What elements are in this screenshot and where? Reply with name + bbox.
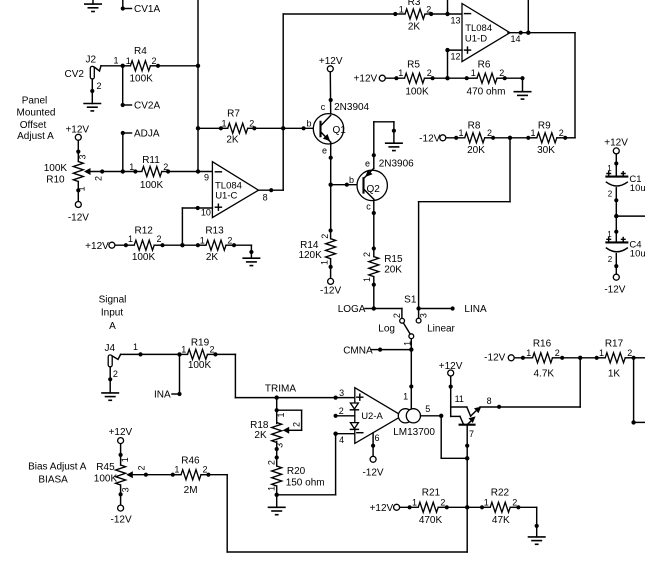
svg-text:U1-D: U1-D [465, 33, 487, 44]
svg-text:e: e [365, 159, 370, 169]
wire vertical bus [197, 0, 199, 172]
svg-text:2: 2 [362, 252, 372, 257]
svg-text:A: A [109, 321, 116, 332]
wire R22 to ground [518, 507, 538, 537]
wire feedback top to R3 [283, 13, 395, 15]
svg-text:2K: 2K [408, 22, 421, 33]
svg-text:R15: R15 [384, 254, 403, 265]
wire R12 to R13 [163, 244, 198, 246]
svg-text:1: 1 [398, 68, 403, 78]
wire TRIMA to U2-A pin 3 [277, 396, 355, 400]
wire S1 pole to U2-A pin 1 [403, 350, 413, 409]
svg-text:J4: J4 [105, 343, 116, 354]
svg-text:-12V: -12V [111, 515, 132, 526]
svg-text:1: 1 [276, 412, 286, 417]
svg-text:8: 8 [263, 193, 268, 203]
connector J2 [65, 55, 119, 92]
svg-text:Q1: Q1 [333, 125, 347, 136]
wire op-amp pin 10 [182, 206, 212, 245]
wire R3 to U1-D pin 13 [431, 13, 462, 15]
svg-text:BIASA: BIASA [38, 475, 68, 486]
resistor R8 20K [446, 120, 495, 156]
node INA [154, 352, 182, 400]
svg-text:-12V: -12V [362, 467, 383, 478]
power -12V (R8) [419, 134, 446, 145]
node pin13 junction [445, 12, 449, 16]
potentiometer R18 2K [250, 398, 302, 452]
svg-text:ADJA: ADJA [134, 129, 160, 140]
svg-text:2: 2 [292, 422, 302, 427]
svg-text:CV2A: CV2A [134, 101, 160, 112]
svg-text:-12V: -12V [604, 285, 625, 296]
wire feedback vertical to R7 and R3 [282, 14, 284, 190]
ground (top-left, CV1 input section) [84, 0, 102, 12]
svg-text:2: 2 [392, 313, 402, 318]
OTA output symbol (current source circles) [398, 409, 420, 423]
svg-text:2: 2 [137, 465, 147, 470]
diode (U2-A upper linearizing diode) [350, 403, 358, 410]
svg-text:LM13700: LM13700 [393, 427, 435, 438]
svg-text:+12V: +12V [65, 124, 89, 135]
svg-text:R21: R21 [422, 488, 441, 499]
switch S1 Log/Linear [378, 294, 455, 349]
potentiometer R45 100K [94, 444, 147, 505]
svg-text:R3: R3 [408, 0, 421, 8]
svg-text:2N3906: 2N3906 [379, 159, 414, 170]
svg-text:CV2: CV2 [65, 69, 85, 80]
svg-text:1: 1 [403, 392, 408, 402]
svg-text:2: 2 [203, 465, 208, 475]
power +12V (R21) [370, 503, 400, 514]
svg-text:+12V: +12V [604, 138, 628, 149]
node pin12/R5/R6 junction [445, 76, 449, 80]
wire R15 to LOGA node [373, 285, 375, 309]
svg-text:2N3904: 2N3904 [334, 102, 369, 113]
svg-text:R20: R20 [287, 466, 306, 477]
svg-text:R7: R7 [227, 109, 240, 120]
svg-text:10u: 10u [630, 183, 645, 194]
power +12V (R10 top) [65, 124, 89, 140]
svg-text:100K: 100K [130, 73, 154, 84]
svg-text:b: b [306, 118, 311, 128]
svg-text:100K: 100K [405, 86, 429, 97]
svg-text:2: 2 [427, 68, 432, 78]
svg-text:R46: R46 [181, 456, 200, 467]
svg-text:INA: INA [154, 390, 171, 401]
svg-text:2: 2 [320, 234, 330, 239]
transistor Q2 2N3906 [349, 159, 414, 212]
svg-text:5: 5 [425, 404, 430, 414]
capacitor C4 10u with -12V [604, 216, 645, 295]
svg-text:2: 2 [113, 369, 118, 379]
node Q1e/Q2b junction [329, 183, 333, 187]
svg-text:U1-C: U1-C [215, 191, 237, 202]
wire U2-A pin 5 output [421, 404, 444, 418]
svg-text:2: 2 [487, 128, 492, 138]
svg-text:100K: 100K [132, 252, 156, 263]
wire R11 to op-amp pin 9 [168, 171, 212, 173]
svg-text:3: 3 [274, 443, 284, 448]
svg-text:20K: 20K [467, 145, 485, 156]
svg-text:R19: R19 [191, 337, 210, 348]
svg-text:R22: R22 [491, 488, 510, 499]
ground (Q2 emitter) [385, 143, 403, 150]
svg-text:2: 2 [97, 81, 102, 91]
svg-text:1: 1 [133, 342, 138, 352]
wire R20 junction to U2-A pin 4 [277, 432, 355, 495]
label Panel Mounted Offset Adjust A [17, 95, 56, 142]
svg-text:9: 9 [204, 173, 209, 183]
node LOGA [338, 304, 376, 315]
resistor R17 1K [595, 339, 636, 380]
wire J2 pin2 to ground [90, 79, 94, 104]
svg-text:120K: 120K [298, 250, 322, 261]
svg-text:U2-A: U2-A [361, 411, 383, 422]
svg-text:R9: R9 [538, 120, 551, 131]
svg-text:20K: 20K [384, 265, 402, 276]
wire R7 to Q1 base [254, 126, 320, 130]
svg-text:+12V: +12V [370, 503, 394, 514]
wire J4 pin1 to R19 [121, 352, 180, 356]
wire R19 to TRIMA row [215, 354, 276, 397]
svg-text:R12: R12 [135, 226, 154, 237]
svg-text:47K: 47K [492, 515, 510, 526]
wire U2-A pin 6 to -12V [371, 433, 375, 456]
power +12V (R45 top) [109, 427, 133, 444]
wire R16 to R17 [562, 357, 597, 359]
svg-text:14: 14 [511, 34, 521, 44]
wire op-amp U1-C output pin 8 [259, 188, 284, 192]
resistor R11 100K [129, 155, 170, 191]
svg-text:6: 6 [374, 433, 379, 443]
power +12V (R12) [85, 241, 115, 252]
svg-text:3: 3 [121, 487, 131, 492]
node bus/R7 junction [196, 126, 200, 130]
node CV1A [121, 0, 161, 15]
svg-text:J2: J2 [86, 55, 97, 66]
svg-text:2: 2 [627, 348, 632, 358]
node pin7/R21/R22 junction [465, 505, 469, 509]
wire R17 node down to edge [631, 358, 645, 425]
label Signal Input A [99, 294, 127, 332]
svg-text:c: c [366, 202, 371, 212]
wire Q1 collector [329, 72, 333, 115]
svg-text:Bias Adjust A: Bias Adjust A [28, 461, 87, 472]
svg-text:b: b [349, 175, 354, 185]
diode (U2-A lower linearizing diode) [350, 423, 358, 430]
power +12V (Q1 collector) [319, 56, 343, 72]
svg-text:2: 2 [266, 460, 276, 465]
svg-text:R10: R10 [46, 174, 65, 185]
svg-text:1: 1 [458, 128, 463, 138]
svg-text:Adjust A: Adjust A [17, 131, 54, 142]
wire J2 pin1 to node [101, 65, 123, 67]
svg-text:1: 1 [114, 56, 119, 66]
svg-text:Mounted: Mounted [17, 108, 56, 119]
power -12V (R16) [484, 353, 514, 364]
svg-text:R45: R45 [96, 462, 115, 473]
node R16/R17/pin8 junction [578, 356, 582, 360]
wire R17 output to edge [634, 357, 645, 359]
svg-text:-12V: -12V [68, 213, 89, 224]
svg-text:1: 1 [399, 4, 404, 14]
wire pin 5 to buffer pin 7 [441, 416, 467, 459]
node LINA [416, 304, 487, 315]
wire U1-D output pin 14 [508, 0, 575, 138]
svg-text:100K: 100K [44, 163, 68, 174]
svg-text:S1: S1 [404, 294, 417, 305]
svg-text:4: 4 [339, 435, 344, 445]
svg-text:1: 1 [484, 497, 489, 507]
node R8/R9/S1-feed junction [508, 136, 512, 140]
wire J4 pin2 to ground [108, 367, 112, 393]
svg-text:470 ohm: 470 ohm [467, 86, 506, 97]
ground (J4) [101, 393, 119, 400]
svg-text:2K: 2K [254, 430, 267, 441]
power -12V (R14) [320, 267, 341, 297]
svg-text:1: 1 [174, 465, 179, 475]
node bus end junction pin 9 [196, 169, 200, 173]
resistor R20 150 ohm [266, 449, 324, 495]
wire vertical from top edge to pin 13 [447, 0, 449, 14]
svg-text:1: 1 [181, 344, 186, 354]
svg-text:CMNA: CMNA [343, 346, 373, 357]
svg-text:1: 1 [471, 68, 476, 78]
svg-text:1: 1 [530, 128, 535, 138]
svg-text:+12V: +12V [354, 73, 378, 84]
svg-text:2K: 2K [206, 252, 219, 263]
svg-text:3: 3 [419, 313, 429, 318]
svg-text:2: 2 [339, 406, 344, 416]
ground (R6) [514, 92, 532, 99]
wire buffer pin 7 down [465, 425, 469, 552]
svg-text:1: 1 [412, 497, 417, 507]
power -12V (U2-A pin 6) [362, 456, 383, 478]
node R20/pin4 junction [275, 493, 279, 497]
op-amp (OTA) U2-A LM13700 [339, 388, 436, 445]
resistor R3 2K [393, 0, 433, 33]
svg-text:R8: R8 [468, 120, 481, 131]
resistor R5 100K [386, 60, 435, 98]
svg-text:TRIMA: TRIMA [265, 383, 296, 394]
wire R5 to R6 [433, 77, 467, 79]
svg-text:1: 1 [362, 277, 372, 282]
svg-text:2: 2 [512, 497, 517, 507]
svg-text:470K: 470K [419, 515, 443, 526]
svg-text:R13: R13 [205, 226, 224, 237]
power +12V (R5) [354, 73, 386, 84]
svg-text:1: 1 [77, 186, 87, 191]
op-amp U1-D TL084 [451, 4, 521, 62]
svg-text:2K: 2K [226, 135, 239, 146]
wire R9 to U1-D output [565, 137, 575, 139]
svg-text:1: 1 [526, 348, 531, 358]
svg-text:150 ohm: 150 ohm [286, 478, 325, 489]
svg-text:1: 1 [120, 457, 130, 462]
svg-text:4.7K: 4.7K [534, 368, 555, 379]
svg-text:2: 2 [559, 128, 564, 138]
svg-text:1: 1 [221, 118, 226, 128]
wire U2-A pin 2 stub [334, 414, 355, 418]
svg-text:100K: 100K [188, 360, 212, 371]
transistor (LM13700 output buffer Darlington) [449, 376, 492, 439]
svg-text:2: 2 [555, 348, 560, 358]
wire R45 wiper to R46 [133, 473, 173, 477]
power +12V (buffer pin 11) [439, 361, 463, 376]
wire R13 to ground [234, 245, 253, 258]
ground (R22) [528, 537, 546, 544]
node ADJA/R11 junction [121, 169, 125, 173]
ground (J2 pin 2) [83, 104, 101, 111]
svg-text:R11: R11 [142, 155, 160, 166]
wire R20 to ground [276, 495, 278, 508]
svg-text:1: 1 [599, 348, 604, 358]
wire Q2 emitter to ground [372, 122, 396, 169]
svg-text:1: 1 [129, 162, 134, 172]
svg-text:Offset: Offset [20, 120, 47, 131]
node CMNA [343, 346, 413, 357]
wire R8 to R9 [493, 137, 528, 139]
svg-text:CV1A: CV1A [134, 4, 160, 15]
node C1/C4 midpoint wire [614, 214, 645, 218]
svg-text:12: 12 [451, 52, 461, 62]
resistor R14 120K [298, 228, 335, 269]
node feedback/R7 junction [281, 126, 285, 130]
connector J4 [105, 342, 139, 379]
capacitor C1 10u with +12V [604, 138, 645, 217]
op-amp U1-C TL084 [201, 162, 268, 218]
svg-text:Panel: Panel [22, 95, 48, 106]
svg-text:-12V: -12V [320, 286, 341, 297]
svg-text:1K: 1K [608, 368, 621, 379]
svg-text:2: 2 [93, 176, 103, 181]
svg-text:2: 2 [440, 497, 445, 507]
svg-text:3: 3 [339, 388, 344, 398]
node pin10/R12/R13 junction [180, 243, 184, 247]
wire R21 to R22 [447, 506, 482, 508]
svg-text:-12V: -12V [484, 353, 505, 364]
wire U1-D pin 12 [445, 48, 462, 78]
node junction J2/R4/CV2A [121, 64, 125, 68]
resistor R16 4.7K [514, 339, 564, 380]
wire R4 to bus [158, 65, 198, 67]
svg-text:R6: R6 [478, 60, 491, 71]
ground (R13) [242, 258, 260, 265]
resistor R12 100K [115, 226, 164, 264]
resistor R21 470K [400, 488, 449, 526]
svg-text:2: 2 [227, 236, 232, 246]
resistor R4 100K [123, 46, 160, 84]
power -12V (R45 bottom) [111, 505, 132, 525]
resistor R46 2M [171, 456, 211, 496]
node ADJA [121, 129, 160, 172]
svg-text:2: 2 [608, 255, 613, 264]
resistor R13 2K [196, 226, 236, 264]
svg-text:Linear: Linear [427, 324, 455, 335]
resistor R6 470 ohm [465, 60, 507, 98]
svg-text:1: 1 [128, 234, 133, 244]
svg-text:10u: 10u [630, 249, 645, 260]
svg-text:Q2: Q2 [367, 184, 381, 195]
svg-text:11: 11 [455, 394, 464, 404]
wire Q2 collector to R15 [372, 199, 376, 248]
svg-text:e: e [322, 145, 327, 155]
svg-text:8: 8 [487, 396, 492, 406]
wire R46 to bottom rail [208, 475, 227, 552]
svg-text:R16: R16 [533, 339, 552, 350]
wire R6 to ground [505, 76, 525, 92]
resistor R9 30K [526, 120, 567, 156]
svg-text:100K: 100K [94, 473, 118, 484]
wire R8/R9 junction down to S1 Linear throw [419, 138, 510, 318]
node bus/R4 junction [196, 64, 200, 68]
svg-text:2: 2 [210, 344, 215, 354]
svg-text:LOGA: LOGA [338, 304, 366, 315]
svg-text:30K: 30K [537, 145, 555, 156]
svg-text:Input: Input [101, 308, 123, 319]
svg-text:100K: 100K [140, 180, 164, 191]
svg-text:10: 10 [201, 208, 211, 218]
resistor R15 20K [362, 246, 403, 286]
label Bias Adjust A / BIASA [28, 461, 87, 485]
resistor R19 100K [180, 337, 218, 371]
svg-text:Signal: Signal [99, 294, 127, 305]
node CV2A [121, 66, 161, 112]
svg-text:LINA: LINA [464, 304, 487, 315]
transistor Q1 2N3904 [306, 102, 369, 155]
node TRIMA [265, 383, 296, 399]
resistor R7 2K [198, 109, 257, 146]
potentiometer R10 100K [44, 141, 104, 202]
svg-text:R4: R4 [134, 46, 147, 57]
ground (R20) [268, 507, 286, 514]
svg-text:+12V: +12V [85, 241, 109, 252]
svg-text:2: 2 [157, 234, 162, 244]
wire buffer pin 8 to R16/R17 node [480, 358, 580, 409]
svg-text:13: 13 [451, 16, 461, 26]
svg-text:3: 3 [78, 154, 88, 159]
svg-text:2: 2 [152, 56, 157, 66]
wire R10 wiper to R11 [91, 169, 136, 173]
resistor R22 47K [480, 488, 521, 526]
wire bottom rail [227, 551, 467, 553]
svg-text:+12V: +12V [109, 427, 133, 438]
svg-text:Log: Log [378, 324, 395, 335]
svg-text:2: 2 [608, 190, 613, 199]
svg-text:1: 1 [266, 486, 276, 491]
svg-text:R5: R5 [407, 60, 420, 71]
wire Q2 base [331, 183, 364, 187]
power -12V (R10 bottom) [68, 202, 89, 224]
svg-text:2M: 2M [184, 485, 198, 496]
wire Q1 emitter to R14/Q2 base [329, 142, 333, 230]
svg-text:-12V: -12V [419, 134, 440, 145]
svg-text:1: 1 [200, 236, 205, 246]
svg-text:R17: R17 [605, 339, 624, 350]
svg-text:c: c [321, 102, 326, 112]
svg-text:7: 7 [469, 429, 474, 439]
wire LOGA to S1 throw 2 [374, 309, 402, 319]
